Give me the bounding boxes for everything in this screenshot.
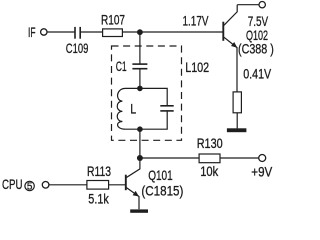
ground Q101 emitter — [130, 209, 148, 212]
svg-text:1.17V: 1.17V — [183, 13, 209, 29]
svg-text:R107: R107 — [101, 12, 125, 28]
ground Q102 emitter — [227, 128, 247, 132]
svg-text:L102: L102 — [185, 59, 209, 75]
svg-text:R113: R113 — [87, 163, 111, 179]
wire tank to lower junction — [139, 129, 141, 158]
resistor R113 — [87, 181, 109, 190]
capacitor C109 — [75, 27, 80, 39]
svg-text:C109: C109 — [66, 40, 89, 56]
wire R113 to Q101 base — [109, 184, 125, 186]
svg-text:(C388 ): (C388 ) — [238, 41, 274, 57]
svg-text:R130: R130 — [197, 135, 223, 151]
wire junction to R130 — [140, 157, 199, 159]
node tank top — [137, 86, 143, 92]
svg-text:0.41V: 0.41V — [243, 65, 272, 81]
resistor emitter Q102 — [233, 92, 241, 113]
wire collector to 7.5V terminal — [237, 4, 259, 6]
terminal +9V — [259, 155, 266, 162]
svg-text:CPU: CPU — [2, 176, 23, 192]
terminal 7.5V supply — [259, 1, 265, 7]
transistor Q101 — [126, 158, 140, 209]
wire C1 to tank top — [139, 69, 141, 88]
wire tank cap bottom — [140, 112, 167, 130]
transistor Q102 — [223, 5, 237, 92]
dashed box L102 — [112, 46, 182, 140]
svg-text:5: 5 — [27, 182, 33, 193]
wire tank cap top — [140, 88, 167, 105]
wire CPU to R113 — [49, 184, 87, 186]
node tank bottom — [137, 126, 143, 132]
pin 5 circled — [25, 181, 34, 192]
inductor L — [117, 88, 140, 129]
capacitor C1 — [132, 64, 147, 69]
node junction lower — [137, 155, 143, 161]
svg-text:5.1k: 5.1k — [88, 191, 109, 207]
capacitor tank — [160, 106, 173, 111]
wire IF to C109 — [47, 31, 74, 33]
wire top junction into box — [139, 32, 141, 63]
node junction top — [137, 29, 143, 35]
svg-text:L: L — [130, 101, 136, 117]
wire R130 to +9V — [220, 157, 259, 159]
wire R107 to Q102 base — [122, 31, 222, 33]
svg-text:(C1815): (C1815) — [141, 183, 183, 199]
resistor R107 — [103, 29, 123, 37]
wire C109 to R107 — [81, 31, 103, 33]
svg-text:C1: C1 — [116, 58, 127, 74]
svg-text:IF: IF — [28, 24, 36, 40]
terminal CPU — [42, 182, 49, 189]
terminal IF — [41, 29, 47, 35]
wire resistor to ground — [236, 113, 238, 129]
svg-text:Q101: Q101 — [148, 167, 173, 183]
svg-text:+9V: +9V — [251, 164, 273, 180]
svg-text:10k: 10k — [200, 163, 219, 179]
resistor R130 — [199, 154, 220, 163]
